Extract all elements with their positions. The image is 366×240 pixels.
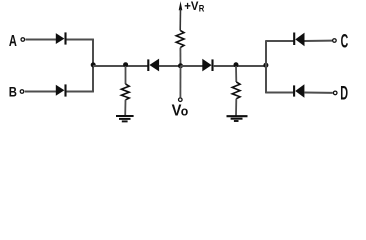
wire R2 to center node — [179, 48, 181, 66]
label +VR — [184, 0, 204, 15]
svg-text:A: A — [9, 33, 17, 50]
svg-text:D: D — [340, 84, 348, 105]
wire D4 to right junction — [213, 65, 266, 67]
wire D3 to center node — [159, 65, 181, 67]
diode D6 (points left) — [294, 84, 304, 98]
junction dot A/B merge — [91, 62, 96, 67]
label Vo — [172, 103, 189, 120]
ground right — [227, 116, 248, 121]
svg-text:C: C — [341, 32, 349, 53]
diode D2 — [56, 84, 66, 96]
supply arrow — [179, 1, 183, 30]
junction dot right resistor — [234, 62, 239, 67]
wire split to diode D6 — [266, 92, 294, 94]
ground left — [116, 116, 134, 121]
wire center node to Vo terminal — [179, 66, 181, 97]
wire vertical C/D split — [265, 40, 267, 93]
wire D5 to C terminal — [305, 40, 333, 42]
svg-text:o: o — [181, 105, 189, 119]
resistor R3 upper lead — [235, 66, 237, 82]
resistor R3 lower lead — [235, 99, 237, 116]
terminal C — [333, 39, 337, 43]
diode D3 (points left) — [148, 59, 159, 72]
junction dot center node — [178, 63, 183, 68]
wire split to diode D5 — [266, 40, 294, 42]
terminal B — [20, 90, 24, 94]
svg-text:B: B — [9, 84, 17, 100]
junction dot C/D split — [263, 63, 268, 68]
svg-text:R: R — [199, 4, 205, 15]
diode D1 — [56, 32, 66, 44]
wire D2 to corner — [67, 91, 94, 93]
wire D1 to corner — [67, 39, 94, 41]
diode D5 (points left) — [294, 33, 304, 47]
resistor R1 upper lead — [125, 66, 127, 84]
svg-text:+V: +V — [184, 0, 198, 13]
diode D4 (points right) — [202, 59, 212, 72]
resistor R1 lower lead — [124, 100, 126, 116]
resistor R1 — [121, 84, 129, 100]
wire B terminal to diode D2 — [25, 91, 57, 93]
wire center node to diode D4 — [181, 65, 203, 67]
resistor R2 (top) — [176, 31, 184, 48]
terminal Vo — [179, 98, 183, 102]
wire D6 to D terminal — [304, 92, 332, 94]
junction dot left resistor — [123, 62, 128, 67]
wire vertical joining A and B branches — [92, 39, 94, 93]
wire A terminal to diode D1 — [26, 39, 57, 41]
terminal A — [21, 38, 25, 42]
terminal D — [333, 91, 337, 95]
resistor R3 — [232, 82, 240, 99]
wire bus left section — [93, 65, 148, 67]
